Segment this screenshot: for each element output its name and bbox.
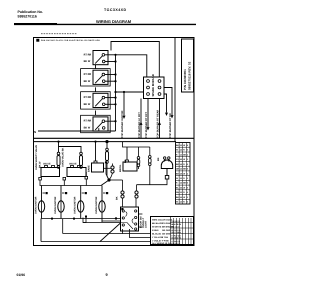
valve V1	[41, 163, 60, 177]
svg-text:P/N 316080901: P/N 316080901	[183, 69, 187, 90]
svg-text:TOP BURNER IGNITOR: TOP BURNER IGNITOR	[121, 110, 124, 138]
svg-text:TOP BURNER RT FRT: TOP BURNER RT FRT	[145, 112, 148, 138]
svg-text:TGC3X4XD: TGC3X4XD	[104, 8, 127, 12]
connector S4	[116, 180, 125, 207]
valve V3	[88, 141, 104, 173]
wire valve bottoms	[39, 172, 101, 186]
svg-text:R RED: R RED	[152, 229, 159, 232]
svg-text:5995270116 REV. 02: 5995270116 REV. 02	[188, 61, 192, 90]
node S wire	[34, 128, 116, 134]
svg-text:BK: BK	[124, 159, 127, 163]
wiring diagram title	[96, 19, 132, 24]
svg-text:BK W: BK W	[84, 127, 91, 130]
wire module out 4	[157, 99, 161, 139]
igniter branch 4	[95, 186, 108, 223]
wire module out 2	[138, 99, 142, 139]
header rule	[14, 24, 196, 34]
svg-text:5995270116: 5995270116	[18, 15, 37, 19]
P/N label box	[182, 39, 194, 92]
wire module right out	[164, 88, 174, 139]
label left column	[35, 144, 42, 170]
valve V2	[62, 148, 87, 177]
svg-text:ALL WIRING 18 GA.: ALL WIRING 18 GA.	[152, 242, 172, 245]
wire module out 3	[145, 99, 149, 139]
igniter branch 1	[35, 186, 48, 219]
svg-text:W: W	[183, 172, 185, 175]
svg-text:TOP BURNER RT RR: TOP BURNER RT RR	[169, 113, 172, 138]
valve V4	[119, 147, 137, 172]
wire right riser	[174, 38, 176, 142]
svg-text:SEE RATING PLATE FOR ELECTRICA: SEE RATING PLATE FOR ELECTRICAL RATINGS …	[41, 39, 101, 42]
svg-text:W: W	[183, 144, 185, 147]
svg-text:BK W: BK W	[39, 161, 42, 168]
wire module out 1	[121, 91, 125, 138]
svg-text:OVEN IGNITOR: OVEN IGNITOR	[54, 196, 57, 214]
svg-text:OVEN IGNITOR: OVEN IGNITOR	[74, 196, 77, 214]
connector CN1	[104, 164, 115, 174]
svg-text:TOP BURNER RT REAR: TOP BURNER RT REAR	[157, 110, 160, 138]
igniter branch 3	[74, 186, 87, 219]
svg-text:BAKE: BAKE	[88, 165, 91, 172]
section divider	[34, 137, 195, 139]
svg-text:9: 9	[106, 273, 108, 277]
svg-text:BK W: BK W	[84, 60, 91, 63]
svg-text:W: W	[183, 187, 185, 190]
connector S5	[135, 185, 138, 207]
publication number text	[18, 10, 44, 19]
node J1 junction	[101, 163, 123, 185]
wire diagonal	[100, 223, 121, 242]
switch SW4 top burner	[81, 115, 117, 132]
svg-text:TOP BURNER LF FRT: TOP BURNER LF FRT	[138, 112, 141, 138]
svg-text:BROIL: BROIL	[119, 164, 122, 172]
svg-text:LIGHT: LIGHT	[145, 220, 148, 228]
svg-text:OVEN VALVE BK: OVEN VALVE BK	[62, 148, 65, 167]
wire bottom runs	[41, 229, 151, 242]
svg-text:BK: BK	[116, 196, 119, 200]
wire arrow up	[105, 160, 109, 180]
wire sensor drop	[123, 142, 150, 163]
wire sw3 to sw4	[95, 111, 97, 116]
power plug P1	[161, 157, 172, 179]
svg-text:WIRE COLOR CODE: WIRE COLOR CODE	[152, 219, 173, 222]
svg-text:RT RR: RT RR	[84, 96, 92, 99]
svg-text:VALVE: VALVE	[69, 163, 77, 166]
svg-text:RT RR: RT RR	[84, 120, 92, 123]
wire bus to module	[116, 55, 147, 77]
model number text	[104, 8, 127, 12]
igniter branch 2	[54, 186, 67, 219]
switch SW2 top burner	[81, 69, 117, 86]
svg-text:OVEN IGNITOR: OVEN IGNITOR	[95, 196, 98, 214]
wire module right down	[164, 94, 168, 116]
page number	[106, 273, 108, 277]
wire bus vertical	[115, 55, 117, 131]
harness routing rects	[41, 216, 133, 242]
svg-text:BK: BK	[157, 157, 160, 161]
switch SW3 top burner	[81, 92, 117, 109]
svg-text:W: W	[176, 149, 178, 152]
svg-text:W: W	[183, 196, 185, 199]
svg-text:VALVE: VALVE	[43, 163, 51, 166]
wire sw1 to sw2	[95, 65, 97, 69]
footer date	[17, 273, 26, 277]
svg-text:BK W: BK W	[84, 103, 91, 106]
svg-text:RT RR: RT RR	[84, 73, 92, 76]
spark module U1	[144, 74, 165, 99]
wire box right out	[139, 214, 143, 227]
mid text block	[140, 216, 148, 228]
wire rail branch	[59, 147, 82, 153]
svg-text:WIRING DIAGRAM: WIRING DIAGRAM	[96, 19, 132, 24]
wire top rail	[111, 42, 159, 78]
svg-text:P12 R2 T3: P12 R2 T3	[171, 242, 180, 245]
svg-text:W: W	[176, 177, 178, 180]
wire igniter collect	[42, 217, 121, 221]
sensor T2	[149, 147, 161, 185]
svg-text:BK W: BK W	[84, 80, 91, 83]
svg-text:W WHITE: W WHITE	[152, 226, 162, 229]
wire plug drop	[137, 179, 168, 185]
lower rail wire	[34, 140, 177, 143]
svg-text:RT RR: RT RR	[84, 53, 92, 56]
svg-text:W: W	[183, 158, 185, 161]
sensor S2	[80, 152, 83, 168]
legend box	[151, 217, 194, 246]
thermostat box	[121, 207, 139, 231]
svg-text:01/96: 01/96	[17, 273, 26, 277]
svg-text:s: s	[34, 130, 36, 134]
wire bus to module mid	[114, 91, 143, 93]
sensor S1	[57, 142, 60, 169]
wire sw2 to sw3	[95, 87, 97, 91]
svg-text:W: W	[176, 201, 178, 204]
svg-text:Publication No.: Publication No.	[18, 10, 44, 14]
svg-text:OR ORG: OR ORG	[162, 229, 171, 232]
svg-text:T TAN: T TAN	[162, 236, 168, 239]
svg-text:GN GRN: GN GRN	[162, 233, 171, 236]
svg-text:OVEN IGNITOR: OVEN IGNITOR	[35, 196, 38, 214]
switch SW1 top burner	[84, 51, 117, 65]
sensor T1	[137, 147, 140, 169]
outer border box	[34, 38, 195, 246]
color code table	[176, 143, 191, 205]
corner mark	[36, 39, 100, 42]
svg-text:BL BLUE: BL BLUE	[152, 233, 162, 236]
sensor S3	[106, 142, 109, 164]
svg-text:SPARK MODULE: SPARK MODULE	[151, 74, 155, 97]
